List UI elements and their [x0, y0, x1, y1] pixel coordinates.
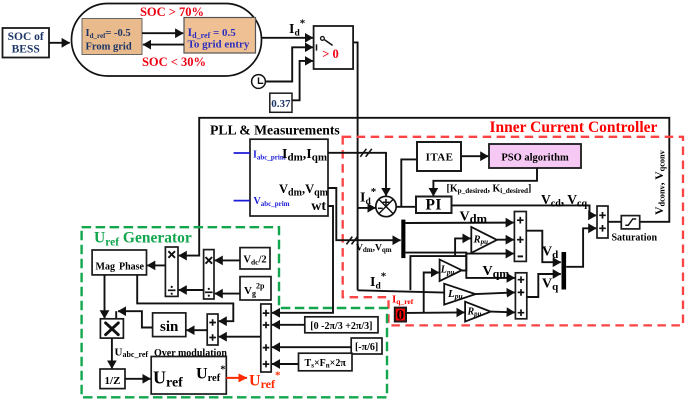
green dashed border Uref Generator	[82, 227, 387, 397]
svg-text:ITAE: ITAE	[426, 152, 454, 164]
state box Id_ref=0.5 To grid entry	[184, 18, 256, 54]
wire Vqm to sum2	[405, 253, 514, 278]
svg-text:Phase: Phase	[119, 262, 145, 273]
wire PI out Vcd Vcq	[452, 205, 597, 215]
slash mark I line	[360, 149, 372, 157]
block PI	[416, 197, 452, 214]
block mult-div 2	[204, 250, 214, 299]
gain Rpu1	[471, 227, 497, 253]
wire switch output Id* down	[353, 42, 358, 290]
sum2 box	[515, 273, 526, 319]
transition arrow right	[142, 32, 183, 34]
wire Lpu1 to sum1 minus	[462, 254, 514, 271]
transition arrow left	[143, 44, 184, 46]
wire Vdm,Vqm from PLL to demux	[328, 188, 401, 240]
svg-text:Vdconv, Vqconv: Vdconv, Vqconv	[654, 149, 667, 214]
wire 0 out to Rpu2	[406, 311, 464, 314]
wire Id branch to minus rail	[410, 256, 466, 290]
svg-text:PLL & Measurements: PLL & Measurements	[210, 123, 340, 138]
wire sin-product downstub	[115, 311, 117, 319]
wire sum1 out Vd	[526, 231, 561, 263]
block constant 0 red	[395, 308, 406, 324]
feedback wire saturation to Uref generator	[179, 118, 670, 256]
svg-text:Uref Generator: Uref Generator	[94, 230, 192, 249]
svg-text:Iq_ref: Iq_ref	[392, 294, 414, 307]
svg-text:PSO algorithm: PSO algorithm	[501, 153, 569, 164]
slash mark V line	[346, 237, 357, 245]
wire Lpu2 to sum2	[476, 292, 515, 294]
wire offsets to sum4	[272, 324, 305, 326]
svg-text:Vdm: Vdm	[460, 210, 488, 227]
wire branch Id* into sum junction	[358, 207, 376, 209]
gain Lpu2	[444, 284, 475, 305]
wire plusplus to sin	[187, 329, 208, 331]
wire Vdc2 to multdiv2	[215, 259, 240, 261]
wire Mag out to product	[104, 275, 106, 318]
wire SOC to stadium	[49, 42, 70, 44]
svg-text:[Kp_desired, Ki_desired]: [Kp_desired, Ki_desired]	[447, 184, 532, 196]
wire 0.37 to switch	[292, 61, 313, 100]
svg-text:sin: sin	[160, 319, 179, 335]
block PLL	[250, 139, 328, 216]
state machine stadium	[72, 4, 262, 77]
svg-text:Uabc_ref: Uabc_ref	[115, 347, 149, 360]
block sum plus-plus	[207, 314, 218, 345]
svg-text:Ts×Fn×2π: Ts×Fn×2π	[305, 358, 347, 370]
svg-text:Vcd, Vcq: Vcd, Vcq	[541, 192, 587, 210]
svg-text:Vd: Vd	[542, 245, 558, 262]
wire multdiv1 to MagPhase	[147, 264, 165, 266]
gain Rpu2	[465, 302, 491, 322]
block Vdc/2	[240, 248, 270, 269]
svg-text:Vdm,Vqm: Vdm,Vqm	[356, 244, 392, 255]
block -pi/6 constant	[351, 338, 382, 354]
block ITAE	[417, 142, 461, 171]
wire Idm,Iqm to junction	[328, 153, 386, 196]
wire ITAE to PSO	[461, 155, 488, 157]
block Vg2p	[240, 277, 271, 300]
wire sum2 out Vq	[527, 274, 561, 297]
block 1/Z	[100, 369, 125, 389]
wire Rpu1 to sum1	[497, 239, 514, 241]
sum4 box	[261, 304, 271, 372]
clock	[252, 75, 266, 89]
wire multdiv2 to multdiv1	[179, 289, 204, 291]
wire 1/Z to Uref	[125, 378, 151, 380]
svg-text:Vq: Vq	[542, 277, 559, 294]
svg-text:Vqm: Vqm	[483, 264, 510, 281]
wire branch to ITAE	[401, 159, 417, 206]
wire -pi/6 to sum4	[272, 346, 351, 348]
svg-text:0: 0	[397, 308, 405, 324]
sum junction	[376, 196, 396, 216]
svg-text:Id*: Id*	[360, 186, 377, 207]
state box Id_ref=-0.5 From grid	[82, 19, 142, 55]
svg-text:wt: wt	[311, 199, 326, 214]
wire sum4 out to plusplus	[219, 336, 261, 338]
mux bar Vd Vq	[562, 252, 567, 290]
switch block	[314, 26, 354, 69]
svg-text:Id*: Id*	[289, 18, 306, 39]
wire clock to switch	[265, 47, 313, 81]
block PSO algorithm	[489, 144, 581, 168]
svg-text:Id*: Id*	[370, 271, 387, 292]
svg-text:Mag: Mag	[96, 262, 115, 273]
wire final sum to saturation	[608, 221, 621, 223]
wire blue input I_abc_prim	[234, 152, 250, 154]
final sum box	[597, 206, 608, 238]
svg-text:0.37: 0.37	[271, 98, 291, 110]
block Uref overmodulation	[151, 357, 226, 395]
svg-text:1/Z: 1/Z	[105, 375, 121, 387]
svg-text:[-π/6]: [-π/6]	[355, 342, 378, 353]
wire PSO to PI	[433, 168, 537, 196]
wire product to 1/Z	[111, 338, 113, 368]
wire mux out to final sum	[566, 228, 596, 266]
wire TsFn to sum4	[272, 363, 299, 365]
wire sin to product	[118, 311, 153, 327]
block SOC of BESS	[3, 28, 50, 58]
svg-text:Inner Current Controller: Inner Current Controller	[490, 119, 658, 136]
gain Lpu1	[440, 260, 462, 282]
block mult-div 1	[165, 247, 178, 296]
svg-text:[0 -2π/3 +2π/3]: [0 -2π/3 +2π/3]	[310, 321, 372, 332]
wire 0 branch to Lpu1	[424, 273, 439, 314]
wire Vdm to sum1	[405, 222, 513, 224]
block 0.37	[270, 93, 292, 112]
svg-text:From grid: From grid	[86, 42, 132, 53]
block TsFn2pi constant	[299, 353, 353, 371]
svg-text:SOC of: SOC of	[8, 31, 44, 43]
svg-text:PI: PI	[425, 197, 442, 214]
block product X	[100, 319, 123, 338]
svg-text:Saturation: Saturation	[612, 233, 658, 244]
red dashed border Inner Current Controller	[343, 137, 683, 326]
wire Phase out to sum2input	[137, 275, 233, 321]
wire blue input V_abc_prim	[234, 200, 250, 202]
wire Vg2p to multdiv2	[215, 293, 240, 295]
wire junction to PI	[396, 206, 416, 208]
block Mag Phase	[92, 250, 146, 275]
svg-text:SOC < 30%: SOC < 30%	[142, 55, 206, 69]
demux bar	[401, 220, 405, 259]
wire Rpu2 to sum2	[491, 311, 515, 314]
wire wt to sum4	[272, 206, 333, 313]
block sin	[153, 313, 186, 337]
svg-text:BESS: BESS	[12, 44, 40, 56]
wire branch to Rpu1	[455, 238, 470, 256]
sum1 box	[514, 212, 526, 262]
wire red Uref out	[226, 377, 247, 379]
block saturation	[621, 216, 639, 229]
svg-text:To grid entry: To grid entry	[188, 39, 250, 51]
block phase offsets constant	[305, 317, 378, 333]
svg-text:> 0: > 0	[322, 47, 339, 61]
wire stadium to switch	[262, 37, 313, 39]
